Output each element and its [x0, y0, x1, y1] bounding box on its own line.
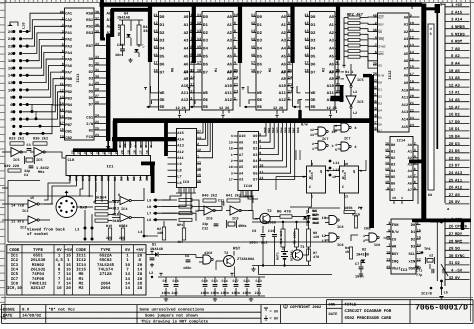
svg-text:25: 25	[288, 68, 292, 73]
svg-text:10: 10	[410, 21, 414, 26]
gate IC8d	[363, 227, 380, 249]
svg-text:IC15: IC15	[343, 172, 347, 180]
svg-text:TITLE: TITLE	[345, 302, 357, 307]
transistor T3 2N3906	[255, 209, 276, 226]
wire 4MHz to T3	[248, 211, 258, 220]
svg-text:14: 14	[125, 277, 130, 282]
wire osc to IC1	[2, 152, 66, 158]
svg-text:25: 25	[89, 150, 93, 154]
svg-text:-5V: -5V	[455, 269, 463, 274]
wire WE OE CE jogs	[144, 86, 300, 108]
svg-text:WE: WE	[311, 91, 316, 96]
svg-text:A5: A5	[227, 55, 232, 60]
svg-text:A14: A14	[177, 137, 184, 142]
svg-text:4: 4	[62, 36, 64, 41]
svg-text:38: 38	[373, 28, 377, 33]
svg-text:A9: A9	[329, 77, 334, 82]
svg-text:A10: A10	[225, 84, 233, 89]
svg-text:18: 18	[8, 59, 13, 64]
svg-text:B7: B7	[391, 188, 395, 193]
svg-text:36: 36	[95, 23, 99, 28]
svg-text:10: 10	[288, 13, 292, 18]
svg-text:2: 2	[375, 21, 377, 26]
svg-text:IC3: IC3	[401, 268, 408, 273]
svg-text:PB6: PB6	[65, 116, 73, 121]
svg-text:C9: C9	[163, 279, 167, 284]
svg-text:D3: D3	[160, 39, 165, 44]
svg-text:24: 24	[95, 114, 99, 119]
svg-text:PA3: PA3	[65, 44, 73, 49]
resistor pack RP2 4k7	[342, 13, 364, 69]
svg-text:32: 32	[449, 276, 454, 281]
svg-text:A2: A2	[455, 54, 460, 59]
svg-text:PA4: PA4	[65, 51, 73, 56]
svg-text:18: 18	[133, 150, 137, 154]
svg-text:A15: A15	[401, 125, 408, 130]
svg-text:2: 2	[336, 96, 338, 101]
svg-text:34: 34	[95, 42, 99, 47]
svg-text:8: 8	[190, 29, 192, 34]
wire IC9 bottom fan	[176, 188, 196, 193]
svg-text:10: 10	[322, 216, 326, 221]
junction dots serial	[84, 210, 94, 241]
svg-text:PA5: PA5	[65, 57, 73, 62]
svg-text:C31: C31	[218, 199, 224, 204]
svg-text:O2: O2	[455, 261, 460, 266]
crystal X3 32kHz	[426, 254, 435, 265]
svg-text:D2: D2	[455, 113, 460, 118]
wire M3 right to RP2	[341, 72, 345, 86]
connector PL1 pin dots	[12, 30, 29, 135]
svg-text:C23: C23	[244, 279, 250, 284]
svg-text:NMI: NMI	[378, 52, 384, 56]
svg-text:1: 1	[231, 153, 233, 158]
svg-text:A3: A3	[184, 39, 189, 44]
svg-text:A15: A15	[177, 131, 183, 136]
svg-text:D1: D1	[152, 243, 156, 248]
wire IC9 bottom to links	[162, 188, 191, 213]
svg-text:20: 20	[137, 263, 142, 268]
svg-text:65C02: 65C02	[99, 258, 112, 263]
svg-text:FUN: FUN	[392, 223, 399, 228]
svg-text:IC12: IC12	[76, 258, 86, 263]
svg-text:SYNC: SYNC	[378, 45, 386, 49]
svg-text:14: 14	[197, 136, 201, 141]
diode D3 zener	[303, 209, 319, 226]
svg-text:11: 11	[259, 170, 263, 175]
svg-text:IC8: IC8	[11, 281, 19, 286]
wire fan bus to IC9	[201, 123, 213, 158]
svg-text:22: 22	[8, 45, 13, 50]
wire links to 4MHz	[192, 200, 222, 221]
svg-text:R29 2k2: R29 2k2	[9, 137, 24, 142]
svg-text:0V: 0V	[125, 248, 131, 253]
svg-text:This drawing is NOT complete: This drawing is NOT complete	[141, 320, 209, 324]
svg-text:D1: D1	[257, 23, 262, 28]
wire bus drop right of M3	[336, 4, 340, 60]
svg-text:2: 2	[62, 16, 64, 21]
svg-text:9: 9	[387, 186, 389, 191]
svg-text:A2: A2	[184, 31, 189, 36]
link L5	[439, 280, 448, 299]
svg-text:A3: A3	[404, 37, 409, 42]
svg-text:A11: A11	[225, 91, 233, 96]
svg-text:DSR: DSR	[100, 174, 105, 181]
svg-text:A7: A7	[239, 153, 243, 158]
svg-text:8: 8	[234, 29, 236, 34]
svg-text:D2: D2	[253, 147, 257, 152]
svg-text:RTS: RTS	[75, 175, 80, 181]
wire bus horizontal to M0	[111, 8, 150, 12]
svg-text:SO: SO	[455, 247, 460, 252]
svg-text:15: 15	[197, 173, 201, 178]
zener D3 BZY88C 4v3	[306, 208, 320, 226]
svg-text:D1: D1	[455, 127, 460, 132]
svg-text:12: 12	[449, 83, 454, 88]
svg-text:6: 6	[288, 45, 290, 50]
svg-text:TP6: TP6	[424, 247, 430, 252]
svg-text:COPYRIGHT 2002: COPYRIGHT 2002	[290, 305, 322, 310]
svg-text:C23: C23	[256, 279, 262, 284]
svg-text:5: 5	[288, 53, 290, 58]
svg-text:SO: SO	[378, 30, 382, 34]
svg-text:1: 1	[197, 154, 199, 159]
svg-text:D1: D1	[160, 23, 165, 28]
svg-text:22: 22	[95, 120, 99, 125]
svg-text:11: 11	[197, 161, 201, 166]
diode D1 1N4148	[146, 243, 168, 257]
svg-text:D5: D5	[253, 165, 257, 170]
svg-text:PA7: PA7	[65, 70, 73, 75]
gate IC7c	[333, 123, 357, 142]
svg-text:IC15: IC15	[76, 267, 86, 272]
wire address fan M0-M1	[194, 17, 198, 73]
svg-text:M2: M2	[79, 281, 84, 286]
wire serial rail	[2, 181, 96, 193]
svg-text:DCD: DCD	[94, 175, 99, 181]
svg-text:D4: D4	[89, 83, 94, 88]
label ISSUE row	[3, 307, 42, 318]
svg-text:IC1: IC1	[107, 165, 115, 170]
buffer IC14 74LS245	[385, 137, 418, 205]
svg-text:M0: M0	[171, 68, 176, 72]
svg-text:23: 23	[449, 164, 454, 169]
svg-text:13: 13	[386, 258, 390, 263]
svg-text:A13: A13	[177, 144, 183, 149]
svg-text:IC5: IC5	[13, 158, 19, 163]
svg-text:D3: D3	[253, 153, 257, 158]
svg-text:18: 18	[229, 165, 233, 170]
svg-text:D1: D1	[203, 23, 208, 28]
svg-text:D2: D2	[89, 70, 94, 75]
svg-text:18: 18	[153, 69, 157, 74]
svg-text:D1: D1	[411, 230, 416, 235]
svg-text:R30 2k2: R30 2k2	[33, 137, 48, 142]
svg-text:A6: A6	[227, 62, 232, 67]
svg-text:22: 22	[449, 156, 454, 161]
svg-text:A3: A3	[281, 39, 286, 44]
svg-text:C16: C16	[173, 279, 179, 284]
resistor R16 22k	[119, 224, 125, 241]
svg-text:IRQ: IRQ	[378, 37, 384, 41]
svg-text:2: 2	[303, 175, 305, 180]
svg-text:A12: A12	[181, 98, 189, 103]
svg-text:15: 15	[197, 45, 201, 50]
svg-text:100n: 100n	[249, 241, 258, 246]
svg-text:18: 18	[449, 127, 454, 132]
svg-text:D2: D2	[311, 31, 316, 36]
svg-text:19: 19	[449, 135, 454, 140]
title block labels	[329, 302, 392, 321]
svg-text:A1: A1	[408, 150, 412, 155]
gate IC7a	[310, 127, 336, 138]
svg-text:5: 5	[335, 148, 337, 153]
svg-text:28: 28	[95, 88, 99, 93]
svg-text:CIRCUIT DIAGRAM FOR: CIRCUIT DIAGRAM FOR	[345, 309, 392, 314]
svg-text:37: 37	[95, 16, 99, 21]
legend 5V 0V	[264, 308, 279, 322]
svg-text:L5: L5	[444, 291, 448, 296]
svg-text:CB2: CB2	[65, 136, 73, 141]
svg-text:MOs: MOs	[415, 265, 421, 270]
svg-text:D1: D1	[253, 140, 257, 145]
resistor R43 330	[137, 20, 149, 47]
svg-text:A14: A14	[455, 18, 463, 23]
svg-text:0V: 0V	[57, 248, 63, 253]
svg-text:A8: A8	[329, 70, 334, 75]
svg-text:A1: A1	[329, 23, 334, 28]
svg-text:RS2: RS2	[86, 25, 94, 30]
svg-text:02: 02	[89, 128, 94, 133]
svg-text:SCL: SCL	[408, 252, 415, 257]
svg-text:330: 330	[143, 29, 149, 34]
resistor R29 2k2	[9, 137, 24, 146]
svg-text:74HC132: 74HC132	[29, 281, 47, 286]
svg-text:M1: M1	[79, 277, 84, 282]
wire connector fan to IC11	[23, 13, 65, 126]
svg-text:26: 26	[449, 186, 454, 191]
svg-text:R6 16R: R6 16R	[117, 24, 121, 36]
svg-text:A6: A6	[184, 62, 189, 67]
svg-text:9: 9	[288, 21, 290, 26]
link strip L6	[428, 24, 434, 198]
wire rtc nets	[345, 220, 390, 241]
svg-text:CODE: CODE	[76, 248, 87, 253]
svg-text:CTS: CTS	[107, 175, 112, 181]
svg-text:6: 6	[234, 45, 236, 50]
svg-text:D1: D1	[378, 87, 382, 91]
diode D4 1N4148	[117, 12, 131, 47]
svg-text:D7: D7	[311, 70, 316, 75]
svg-text:7: 7	[388, 243, 390, 248]
svg-text:10: 10	[449, 69, 454, 74]
svg-text:19: 19	[229, 140, 233, 145]
svg-text:40: 40	[373, 14, 377, 19]
svg-text:4: 4	[231, 134, 233, 139]
VIA IC11 6522A	[60, 8, 107, 141]
svg-text:D1: D1	[119, 177, 124, 181]
svg-text:14: 14	[410, 50, 414, 55]
svg-text:A13: A13	[401, 110, 408, 115]
svg-text:13: 13	[310, 133, 314, 138]
RAM/ROM M3	[304, 12, 341, 119]
node L11	[329, 160, 340, 177]
svg-text:25: 25	[234, 68, 238, 73]
svg-text:PB2: PB2	[65, 90, 73, 95]
svg-text:14: 14	[66, 281, 71, 286]
svg-text:19: 19	[60, 134, 64, 139]
wire battery net	[252, 208, 340, 255]
svg-text:R: R	[135, 145, 138, 147]
inverter IC5 clock buffer	[345, 64, 363, 87]
svg-text:+5V: +5V	[136, 248, 144, 253]
svg-text:23: 23	[288, 89, 292, 94]
svg-text:18: 18	[60, 128, 64, 133]
svg-text:D7: D7	[89, 102, 94, 107]
svg-text:5: 5	[190, 53, 192, 58]
ACIA IC1 6551	[66, 141, 151, 181]
wire bus drop to IC9	[164, 120, 168, 156]
svg-text:12: 12	[310, 128, 314, 133]
svg-text:IC5: IC5	[232, 217, 238, 222]
svg-text:12: 12	[385, 167, 389, 172]
resistor R8 120	[307, 226, 320, 249]
svg-text:C32: C32	[202, 227, 208, 232]
power arrows right of table	[149, 251, 154, 278]
svg-text:24: 24	[449, 171, 454, 176]
svg-text:11: 11	[60, 82, 64, 87]
svg-text:6: 6	[375, 50, 377, 55]
svg-text:PA6: PA6	[65, 64, 73, 69]
svg-text:26: 26	[95, 101, 99, 106]
wire address verticals below drops	[150, 60, 338, 107]
svg-text:5: 5	[414, 161, 416, 166]
junction dots PB fan	[31, 104, 45, 135]
svg-text:4k7: 4k7	[177, 240, 183, 245]
svg-text:CA2: CA2	[65, 18, 73, 23]
svg-text:WE: WE	[160, 91, 165, 96]
svg-text:IC4: IC4	[11, 267, 19, 272]
svg-text:18: 18	[197, 69, 201, 74]
svg-text:IC5: IC5	[357, 78, 363, 83]
svg-text:32: 32	[373, 86, 377, 91]
svg-text:C16: C16	[268, 229, 274, 234]
svg-text:A1: A1	[227, 23, 232, 28]
top edge ruler ticks	[6, 0, 470, 3]
left edge ruler ticks	[0, 3, 5, 317]
svg-text:A9: A9	[239, 140, 243, 145]
svg-text:12: 12	[417, 258, 421, 263]
svg-text:D0: D0	[455, 120, 460, 125]
svg-text:14: 14	[417, 243, 421, 248]
svg-text:34: 34	[373, 72, 377, 77]
svg-text:100n: 100n	[201, 291, 209, 296]
svg-text:C4: C4	[24, 173, 28, 178]
svg-text:16: 16	[8, 66, 13, 71]
svg-text:1: 1	[363, 234, 365, 239]
svg-text:120: 120	[313, 235, 319, 240]
svg-text:10: 10	[197, 167, 201, 172]
wire bus horizontal under M3	[331, 96, 344, 102]
svg-text:D0: D0	[257, 15, 262, 20]
svg-text:18: 18	[229, 147, 233, 152]
wire bus IC1 top rail	[73, 148, 117, 152]
svg-text:R12: R12	[113, 200, 119, 205]
svg-text:12: 12	[8, 81, 13, 86]
svg-text:C14: C14	[222, 279, 228, 284]
svg-text:28: 28	[137, 281, 142, 286]
svg-text:1: 1	[417, 221, 419, 226]
svg-text:11: 11	[449, 76, 454, 81]
svg-text:4: 4	[388, 221, 390, 226]
svg-text:27128: 27128	[99, 272, 112, 277]
svg-text:R6 470: R6 470	[277, 210, 291, 215]
svg-text:A8: A8	[281, 70, 286, 75]
svg-text:4,5: 4,5	[55, 258, 63, 263]
wire misc analog	[8, 196, 235, 277]
svg-text:16: 16	[410, 65, 414, 70]
svg-text:D2: D2	[257, 31, 262, 36]
svg-text:D7: D7	[253, 178, 257, 183]
svg-text:32: 32	[95, 62, 99, 67]
svg-text:28: 28	[71, 150, 75, 154]
svg-text:A2: A2	[227, 31, 232, 36]
svg-text:11: 11	[385, 174, 389, 179]
svg-text:28: 28	[449, 239, 454, 244]
svg-text:D5: D5	[203, 55, 208, 60]
resistor R39 220	[4, 164, 21, 172]
svg-text:A11: A11	[181, 91, 189, 96]
svg-text:2064: 2064	[101, 286, 111, 291]
svg-text:A10: A10	[181, 84, 189, 89]
svg-text:A5: A5	[184, 55, 189, 60]
svg-text:A7: A7	[408, 188, 412, 193]
wire bus bottom right horizontal	[412, 218, 471, 222]
svg-text:12: 12	[197, 148, 201, 153]
svg-text:D4: D4	[203, 47, 208, 52]
svg-text:C9: C9	[252, 229, 256, 234]
svg-text:D7: D7	[203, 70, 208, 75]
svg-text:IC14: IC14	[76, 263, 86, 268]
svg-text:A10: A10	[401, 88, 408, 93]
buffer IC4b	[112, 210, 138, 229]
svg-text:A13: A13	[455, 171, 463, 176]
svg-text:D3: D3	[132, 177, 137, 181]
svg-text:10: 10	[336, 13, 340, 18]
svg-text:16: 16	[66, 267, 71, 272]
svg-text:27: 27	[449, 193, 454, 198]
svg-text:RST: RST	[455, 40, 463, 45]
svg-text:L3: L3	[75, 228, 79, 233]
svg-text:5: 5	[259, 133, 261, 138]
svg-text:39: 39	[373, 62, 377, 67]
svg-text:10: 10	[333, 129, 337, 134]
svg-text:16: 16	[60, 115, 64, 120]
capacitor C7 100n	[355, 260, 364, 280]
svg-text:9: 9	[360, 169, 362, 174]
svg-text:35: 35	[95, 29, 99, 34]
RAM/ROM M1	[197, 12, 239, 119]
svg-text:26LS32: 26LS32	[31, 267, 46, 272]
svg-text:100n: 100n	[211, 291, 219, 296]
svg-text:28: 28	[449, 200, 454, 205]
svg-text:D3: D3	[257, 39, 262, 44]
svg-text:D3: D3	[455, 142, 460, 147]
svg-text:A9: A9	[281, 77, 286, 82]
svg-text:BSY: BSY	[392, 252, 399, 257]
svg-text:D4: D4	[455, 135, 460, 140]
svg-text:30: 30	[449, 254, 454, 259]
